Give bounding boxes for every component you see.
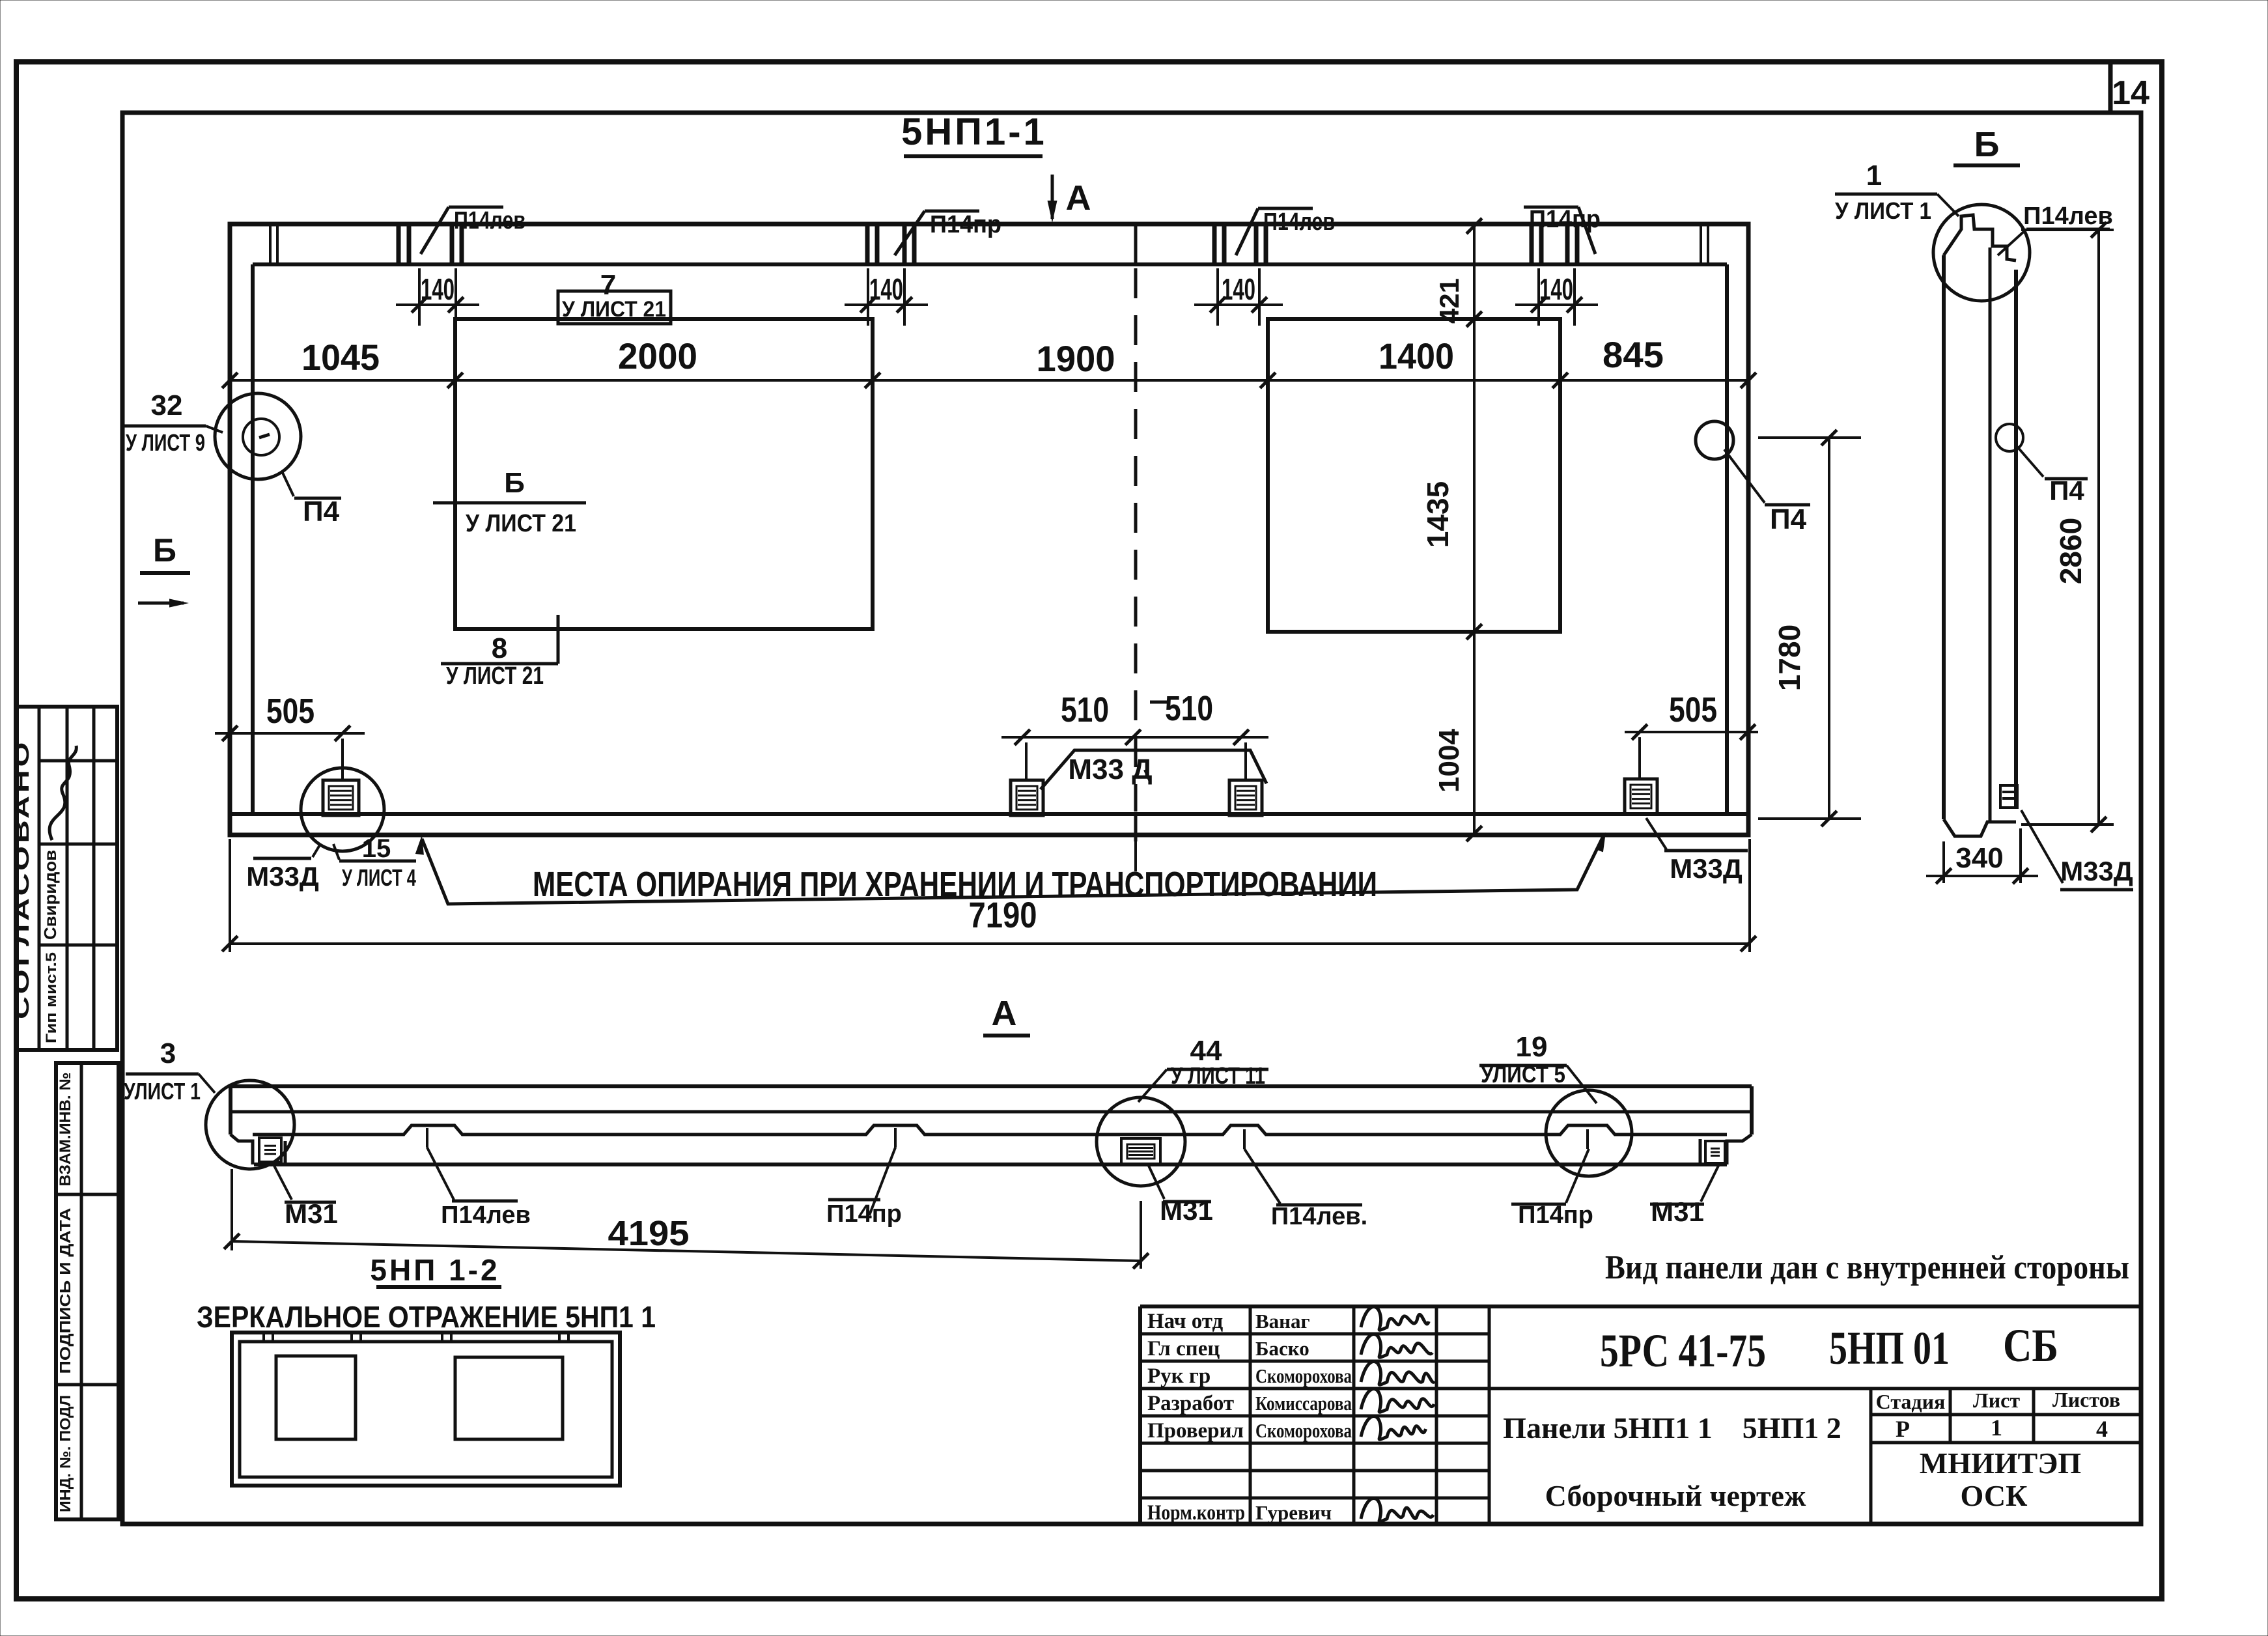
- svg-text:УЛИСТ 1: УЛИСТ 1: [124, 1078, 201, 1105]
- svg-text:15: 15: [362, 834, 391, 863]
- svg-text:5НП 01: 5НП 01: [1829, 1322, 1950, 1374]
- svg-text:П14лев: П14лев: [2023, 203, 2113, 230]
- svg-text:7: 7: [600, 269, 616, 301]
- svg-text:340: 340: [1955, 842, 2003, 874]
- svg-text:СБ: СБ: [2003, 1319, 2058, 1372]
- svg-text:МНИИТЭП: МНИИТЭП: [1920, 1446, 2081, 1480]
- svg-text:140: 140: [421, 272, 455, 306]
- svg-text:Гип мист.5: Гип мист.5: [43, 952, 59, 1043]
- svg-text:П14лев.: П14лев.: [1271, 1203, 1367, 1230]
- svg-text:2860: 2860: [2054, 518, 2088, 584]
- svg-text:П14пр: П14пр: [826, 1200, 902, 1228]
- svg-text:1: 1: [1866, 160, 1882, 191]
- svg-text:УЛИСТ 5: УЛИСТ 5: [1481, 1061, 1565, 1088]
- svg-text:М33Д: М33Д: [1670, 853, 1743, 884]
- svg-text:Лист: Лист: [1973, 1389, 2020, 1412]
- svg-text:32: 32: [151, 389, 183, 421]
- svg-text:510: 510: [1165, 689, 1213, 728]
- svg-text:Стадия: Стадия: [1876, 1390, 1946, 1413]
- svg-text:П14лев: П14лев: [454, 207, 525, 234]
- svg-text:1004: 1004: [1433, 729, 1465, 793]
- svg-text:421: 421: [1434, 278, 1464, 324]
- svg-text:505: 505: [266, 692, 315, 731]
- svg-text:ЗЕРКАЛЬНОЕ ОТРАЖЕНИЕ 5НП1 1: ЗЕРКАЛЬНОЕ ОТРАЖЕНИЕ 5НП1 1: [197, 1300, 656, 1334]
- svg-text:СОГЛАСОВАНО: СОГЛАСОВАНО: [10, 739, 33, 1019]
- svg-text:Панели 5НП1 1 5НП1 2: Панели 5НП1 1 5НП1 2: [1503, 1411, 1841, 1445]
- svg-text:Комиссарова: Комиссарова: [1255, 1392, 1352, 1415]
- svg-text:19: 19: [1516, 1031, 1548, 1063]
- svg-text:1045: 1045: [301, 337, 380, 378]
- svg-text:Р: Р: [1896, 1416, 1910, 1442]
- svg-text:У ЛИСТ 21: У ЛИСТ 21: [446, 662, 544, 690]
- svg-text:Сборочный чертеж: Сборочный чертеж: [1545, 1479, 1806, 1512]
- svg-text:ПОДПИСЬ И ДАТА: ПОДПИСЬ И ДАТА: [57, 1208, 74, 1374]
- svg-text:М31: М31: [1651, 1196, 1704, 1227]
- svg-text:845: 845: [1603, 334, 1664, 375]
- svg-text:4: 4: [2096, 1416, 2108, 1442]
- svg-text:2000: 2000: [618, 335, 697, 376]
- svg-text:505: 505: [1669, 690, 1717, 729]
- svg-text:Проверил: Проверил: [1147, 1419, 1244, 1443]
- svg-text:ВЗАМ.ИНВ. №: ВЗАМ.ИНВ. №: [57, 1073, 74, 1187]
- svg-text:Нач отд: Нач отд: [1147, 1310, 1224, 1333]
- svg-text:П14пр: П14пр: [1529, 206, 1601, 233]
- svg-text:7190: 7190: [969, 894, 1037, 935]
- svg-text:М33Д: М33Д: [246, 861, 319, 892]
- svg-text:Баско: Баско: [1255, 1337, 1309, 1360]
- svg-text:1435: 1435: [1421, 481, 1455, 548]
- svg-text:П14лев: П14лев: [441, 1202, 531, 1229]
- svg-text:А: А: [1066, 178, 1091, 218]
- svg-text:Норм.контр: Норм.контр: [1147, 1501, 1245, 1525]
- svg-text:4195: 4195: [608, 1214, 690, 1253]
- svg-text:Скоморохова: Скоморохова: [1255, 1364, 1352, 1387]
- svg-text:П14лев: П14лев: [1263, 208, 1335, 236]
- svg-text:М33Д: М33Д: [2060, 856, 2133, 886]
- svg-text:Б: Б: [504, 467, 525, 499]
- svg-text:У ЛИСТ 9: У ЛИСТ 9: [126, 429, 205, 456]
- svg-text:140: 140: [1539, 272, 1573, 306]
- svg-text:1780: 1780: [1772, 625, 1806, 691]
- svg-text:8: 8: [492, 632, 507, 664]
- svg-text:ОСК: ОСК: [1961, 1479, 2028, 1512]
- svg-text:510: 510: [1061, 690, 1109, 729]
- svg-text:Гуревич: Гуревич: [1255, 1501, 1332, 1524]
- svg-text:14: 14: [2112, 74, 2149, 112]
- svg-text:Листов: Листов: [2052, 1388, 2120, 1411]
- svg-text:Скоморохова: Скоморохова: [1255, 1419, 1352, 1442]
- svg-text:1: 1: [1991, 1415, 2002, 1441]
- svg-text:П4: П4: [1770, 503, 1807, 535]
- svg-text:Ванаг: Ванаг: [1255, 1310, 1310, 1333]
- svg-text:П14пр: П14пр: [1518, 1202, 1593, 1229]
- svg-text:1900: 1900: [1037, 338, 1115, 379]
- svg-text:Б: Б: [1974, 125, 2000, 164]
- svg-text:М31: М31: [1160, 1195, 1213, 1226]
- svg-text:Б: Б: [153, 532, 176, 569]
- svg-text:У ЛИСТ 1: У ЛИСТ 1: [1835, 197, 1931, 224]
- svg-text:Вид панели дан с внутренней ст: Вид панели дан с внутренней стороны: [1605, 1249, 2129, 1286]
- svg-text:5РС 41-75: 5РС 41-75: [1600, 1325, 1766, 1377]
- svg-text:3: 3: [160, 1037, 176, 1069]
- svg-text:Свиридов: Свиридов: [40, 850, 60, 940]
- svg-text:ИНД. №. ПОДЛ: ИНД. №. ПОДЛ: [57, 1395, 74, 1512]
- svg-text:Рук гр: Рук гр: [1147, 1364, 1211, 1388]
- svg-text:У ЛИСТ 4: У ЛИСТ 4: [342, 864, 416, 891]
- svg-text:М31: М31: [285, 1198, 338, 1229]
- svg-text:5НП1-1: 5НП1-1: [901, 111, 1047, 153]
- svg-text:Разработ: Разработ: [1147, 1392, 1234, 1415]
- svg-text:5НП 1-2: 5НП 1-2: [370, 1253, 499, 1287]
- svg-text:П14пр: П14пр: [930, 211, 1001, 238]
- svg-text:1400: 1400: [1379, 335, 1454, 376]
- svg-text:Гл спец: Гл спец: [1147, 1337, 1220, 1361]
- svg-text:У ЛИСТ 11: У ЛИСТ 11: [1171, 1062, 1265, 1089]
- svg-text:П4: П4: [303, 496, 340, 528]
- svg-text:140: 140: [1222, 272, 1255, 306]
- svg-text:М33 Д: М33 Д: [1068, 754, 1152, 785]
- svg-text:У ЛИСТ 21: У ЛИСТ 21: [562, 297, 666, 322]
- svg-text:А: А: [992, 994, 1017, 1033]
- svg-text:МЕСТА ОПИРАНИЯ ПРИ ХРАНЕНИИ И: МЕСТА ОПИРАНИЯ ПРИ ХРАНЕНИИ И ТРАНСПОРТИ…: [533, 865, 1377, 904]
- svg-text:У ЛИСТ 21: У ЛИСТ 21: [466, 510, 576, 537]
- svg-text:140: 140: [869, 272, 903, 306]
